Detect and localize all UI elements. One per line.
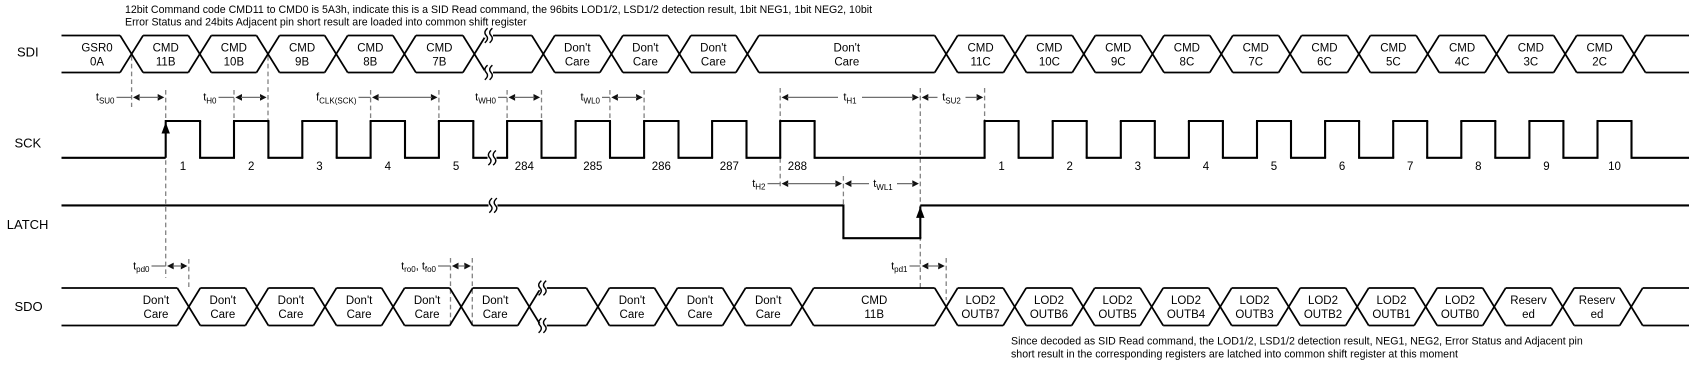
SCK clock pulse 3 (second frame): [1120, 121, 1190, 173]
svg-text:8: 8: [1475, 161, 1481, 173]
svg-text:Care: Care: [415, 309, 440, 321]
SDI bus transition at x=336: [325, 36, 348, 73]
svg-text:286: 286: [652, 161, 671, 173]
SCK clock pulse 288: [779, 121, 815, 173]
svg-text:3: 3: [1135, 161, 1141, 173]
dashed reference line: SDO transition end tfo0: [471, 258, 473, 326]
SDI bus transition at x=1290: [1279, 36, 1302, 73]
svg-text:LOD2: LOD2: [965, 295, 995, 307]
svg-text:7B: 7B: [432, 56, 446, 68]
svg-text:Don't: Don't: [278, 295, 305, 307]
dashed reference line: SDI first data change: [131, 56, 133, 107]
SDO bus segment 13: LOD2 OUTB5: [1095, 288, 1141, 326]
SDI bus transition at x=1221: [1210, 36, 1233, 73]
svg-text:7: 7: [1407, 161, 1413, 173]
SDO bus segment 5: Don't Care: [473, 288, 518, 326]
svg-text:Don't: Don't: [210, 295, 237, 307]
break mark on SDI bottom line at x=486: [484, 65, 493, 80]
SDO bus segment 15: LOD2 OUTB3: [1232, 288, 1278, 326]
svg-text:fCLK(SCK): fCLK(SCK): [316, 92, 357, 106]
timing arrow tWL0: [580, 92, 642, 106]
SDO bus transition at x=1563: [1551, 288, 1574, 326]
svg-text:4C: 4C: [1455, 56, 1470, 68]
SDI bus transition at x=1428: [1416, 36, 1439, 73]
svg-text:Care: Care: [834, 56, 859, 68]
svg-text:CMD: CMD: [1449, 42, 1475, 54]
SDO bus segment 11: LOD2 OUTB7: [958, 288, 1004, 326]
timing arrow fCLK(SCK): [316, 92, 437, 106]
SDI bus segment 19: CMD 3C: [1508, 36, 1554, 73]
svg-text:5: 5: [453, 161, 459, 173]
SDI bus transition at x=946: [935, 36, 958, 73]
SDI bus segment 12: CMD 10C: [1027, 36, 1073, 73]
svg-text:tro0, tfo0: tro0, tfo0: [401, 260, 436, 274]
timing arrow tpd0: [133, 260, 187, 274]
SDI bus transition at x=404: [393, 36, 416, 73]
SCK clock pulse 10 (second frame): [1597, 121, 1689, 173]
svg-text:CMD: CMD: [289, 42, 315, 54]
svg-text:LOD2: LOD2: [1376, 295, 1406, 307]
svg-text:12bit Command code CMD11 to CM: 12bit Command code CMD11 to CMD0 is 5A3h…: [125, 4, 872, 16]
SDO bus segment 4: Don't Care: [405, 288, 450, 326]
SDO bus transition at x=598: [586, 288, 609, 326]
svg-text:6C: 6C: [1317, 56, 1332, 68]
dashed reference line: fCLK left: [370, 90, 372, 122]
timing arrow tro0, tfo0: [401, 260, 471, 274]
SDO bus transition at x=1289: [1277, 288, 1300, 326]
SDI bus transition at x=543: [532, 36, 555, 73]
SDO bus segment 6: open: [541, 288, 587, 326]
SDI bus transition at x=132: [120, 36, 143, 73]
svg-text:LOD2: LOD2: [1445, 295, 1475, 307]
SDO bus segment 20: Reserv ed: [1574, 288, 1620, 326]
svg-text:OUTB2: OUTB2: [1304, 309, 1342, 321]
SCK clock pulse 287: [711, 121, 781, 173]
SDO bus transition at x=734: [723, 288, 746, 326]
LATCH falling edge: [842, 204, 844, 238]
SDI bus segment 2: CMD 10B: [211, 36, 256, 73]
SDO bus transition at x=393: [382, 288, 405, 326]
SDO bus transition at x=1426: [1414, 288, 1437, 326]
svg-text:2C: 2C: [1592, 56, 1607, 68]
svg-text:SDI: SDI: [17, 45, 39, 60]
SCK clock pulse 1 (second frame): [984, 121, 1054, 173]
SDI bus transition at x=679: [668, 36, 691, 73]
SDI bus transition at x=200: [188, 36, 211, 73]
SDI bus segment 4: CMD 8B: [348, 36, 393, 73]
SDI bus segment 17: CMD 5C: [1370, 36, 1416, 73]
svg-text:ed: ed: [1522, 309, 1535, 321]
break mark on LATCH high line at x=490: [489, 198, 498, 213]
SCK clock pulse 284: [506, 121, 576, 173]
SDI bus transition at x=747: [736, 36, 759, 73]
LATCH rising edge with arrow: [916, 206, 924, 238]
SDI bus segment 3: CMD 9B: [280, 36, 325, 73]
svg-text:9: 9: [1543, 161, 1549, 173]
dashed reference line: LATCH falling edge: [842, 176, 844, 204]
svg-text:Care: Care: [688, 309, 713, 321]
svg-text:CMD: CMD: [1311, 42, 1337, 54]
svg-text:tSU0: tSU0: [96, 92, 115, 106]
svg-text:Don't: Don't: [687, 295, 714, 307]
SDO bus transition at x=666: [655, 288, 678, 326]
break mark on SDI top line at x=486: [484, 28, 493, 43]
svg-text:CMD: CMD: [153, 42, 179, 54]
svg-text:Care: Care: [701, 56, 726, 68]
svg-text:CMD: CMD: [221, 42, 247, 54]
break mark on SDO top line at x=540: [538, 281, 547, 296]
SCK clock pulse 7 (second frame): [1392, 121, 1462, 173]
svg-text:OUTB4: OUTB4: [1167, 309, 1206, 321]
svg-text:SDO: SDO: [15, 299, 43, 314]
top annotation text: [125, 4, 872, 29]
SCK clock pulse 4: [370, 121, 440, 173]
svg-text:Care: Care: [565, 56, 590, 68]
SDI bus segment 11: CMD 11C: [958, 36, 1004, 73]
svg-text:9C: 9C: [1111, 56, 1126, 68]
SDO bus transition at x=189: [177, 288, 200, 326]
SDO bus segment 14: LOD2 OUTB4: [1163, 288, 1209, 326]
svg-text:Care: Care: [620, 309, 645, 321]
dashed reference line: SCK second rising edge: [233, 90, 235, 126]
svg-text:OUTB5: OUTB5: [1098, 309, 1136, 321]
svg-text:287: 287: [720, 161, 739, 173]
SDI bus segment 9: Don't Care: [691, 36, 736, 73]
SDI bus segment 6: open: [486, 36, 532, 73]
svg-text:CMD: CMD: [357, 42, 383, 54]
svg-text:285: 285: [583, 161, 602, 173]
svg-text:tWL0: tWL0: [580, 92, 600, 106]
timing arrow tH2: [752, 178, 842, 192]
SDI bus segment 8: Don't Care: [623, 36, 668, 73]
dashed reference line: SDO first change: [188, 259, 190, 288]
svg-text:ed: ed: [1591, 309, 1604, 321]
svg-text:Care: Care: [633, 56, 658, 68]
timing arrow tH1: [782, 92, 919, 106]
svg-text:284: 284: [515, 161, 535, 173]
timing arrow tpd1: [891, 260, 945, 274]
SCK clock pulse 3: [301, 121, 371, 173]
timing arrow tSU0: [96, 92, 164, 106]
svg-text:Care: Care: [756, 309, 781, 321]
svg-text:Reserv: Reserv: [1510, 295, 1547, 307]
SDI bus segment 14: CMD 8C: [1164, 36, 1210, 73]
SDI bus segment 10: Don't Care: [759, 36, 935, 73]
SCK waveform: initial low run: [62, 157, 166, 159]
svg-text:OUTB1: OUTB1: [1372, 309, 1410, 321]
svg-text:4: 4: [385, 161, 392, 173]
SDI bus segment 16: CMD 6C: [1302, 36, 1348, 73]
SDO bus segment 17: LOD2 OUTB1: [1369, 288, 1415, 326]
svg-text:Care: Care: [347, 309, 372, 321]
SDO bus segment 18: LOD2 OUTB0: [1437, 288, 1483, 326]
svg-text:1: 1: [998, 161, 1004, 173]
SDO bus transition at x=257: [245, 288, 268, 326]
svg-text:Care: Care: [210, 309, 235, 321]
svg-text:Care: Care: [144, 309, 169, 321]
SDI bus transition at x=1015: [1004, 36, 1027, 73]
SDO bus transition at x=1152: [1140, 288, 1163, 326]
SDO bus transition at x=1494: [1483, 288, 1506, 326]
svg-text:Don't: Don't: [346, 295, 373, 307]
svg-text:Don't: Don't: [143, 295, 170, 307]
SDI bus segment 21: open: [1646, 36, 1689, 73]
svg-text:Don't: Don't: [619, 295, 646, 307]
svg-text:Reserv: Reserv: [1579, 295, 1616, 307]
svg-text:4: 4: [1203, 161, 1210, 173]
SDI bus transition at x=474: [463, 36, 486, 73]
SDO bus segment 3: Don't Care: [337, 288, 382, 326]
dashed reference line: SDO transition start tro0: [450, 258, 452, 326]
svg-text:2: 2: [1066, 161, 1072, 173]
dashed reference line: fCLK right: [438, 90, 440, 122]
svg-text:3: 3: [316, 161, 322, 173]
SCK clock pulse 1: [162, 121, 236, 173]
svg-text:Don't: Don't: [834, 42, 861, 54]
SCK clock pulse 6 (second frame): [1324, 121, 1394, 173]
svg-text:Don't: Don't: [632, 42, 659, 54]
svg-text:CMD: CMD: [1518, 42, 1544, 54]
dashed reference line: SDO change after latch: [945, 258, 947, 300]
svg-text:CMD: CMD: [861, 295, 887, 307]
LATCH low pulse: [842, 237, 921, 239]
svg-text:Care: Care: [483, 309, 508, 321]
SDO bus transition at x=802: [791, 288, 814, 326]
svg-text:LOD2: LOD2: [1171, 295, 1201, 307]
dashed reference line: tWL0 right: [643, 90, 645, 122]
svg-text:CMD: CMD: [967, 42, 993, 54]
svg-text:Since decoded as SID Read comm: Since decoded as SID Read command, the L…: [1011, 335, 1583, 347]
svg-text:LOD2: LOD2: [1102, 295, 1132, 307]
SDI bus segment 13: CMD 9C: [1095, 36, 1141, 73]
SDO bus segment 21: open: [1643, 288, 1689, 326]
svg-text:GSR0: GSR0: [81, 42, 112, 54]
svg-text:LOD2: LOD2: [1034, 295, 1064, 307]
dashed reference line: SDI data change tH0: [267, 56, 269, 126]
svg-text:LATCH: LATCH: [7, 217, 49, 232]
SDO bus segment 16: LOD2 OUTB2: [1300, 288, 1346, 326]
svg-text:OUTB3: OUTB3: [1235, 309, 1273, 321]
SDI bus transition at x=1084: [1072, 36, 1095, 73]
svg-text:OUTB6: OUTB6: [1030, 309, 1068, 321]
svg-text:Don't: Don't: [755, 295, 782, 307]
svg-text:Don't: Don't: [564, 42, 591, 54]
svg-text:LOD2: LOD2: [1308, 295, 1338, 307]
svg-text:5: 5: [1271, 161, 1277, 173]
svg-text:Don't: Don't: [700, 42, 727, 54]
svg-text:11C: 11C: [970, 56, 990, 68]
svg-text:CMD: CMD: [1586, 42, 1612, 54]
SDI bus segment 20: CMD 2C: [1577, 36, 1623, 73]
svg-text:CMD: CMD: [1243, 42, 1269, 54]
SDO bus segment 0: Don't Care: [62, 288, 178, 326]
svg-text:CMD: CMD: [1380, 42, 1406, 54]
dashed reference line: tWL0 left: [609, 90, 611, 122]
dashed reference line: tWH0 left: [506, 90, 508, 122]
svg-text:10B: 10B: [224, 56, 245, 68]
SDI bus segment 1: CMD 11B: [143, 36, 188, 73]
SDI bus transition at x=1359: [1347, 36, 1370, 73]
svg-text:Error Status and 24bits Adjace: Error Status and 24bits Adjacent pin sho…: [125, 17, 527, 29]
timing arrow tWH0: [475, 92, 540, 106]
SCK clock pulse 286: [643, 121, 713, 173]
svg-text:LOD2: LOD2: [1239, 295, 1269, 307]
svg-text:10C: 10C: [1039, 56, 1060, 68]
SDI bus segment 0: GSR0 0A: [62, 36, 121, 73]
dashed reference line: tWH0 right: [541, 90, 543, 122]
svg-text:short result in the correspond: short result in the corresponding regist…: [1011, 348, 1458, 360]
SCK clock pulse 8 (second frame): [1460, 121, 1530, 173]
SDI bus transition at x=1565: [1554, 36, 1577, 73]
bottom annotation text: [1011, 335, 1583, 360]
svg-text:2: 2: [248, 161, 254, 173]
svg-text:288: 288: [788, 161, 807, 173]
svg-text:tSU2: tSU2: [942, 92, 961, 106]
SCK clock pulse 4 (second frame): [1188, 121, 1258, 173]
SCK low run during latch: [814, 157, 986, 159]
SDI bus segment 7: Don't Care: [555, 36, 600, 73]
break mark on SDO bottom line at x=540: [538, 318, 547, 333]
svg-text:8C: 8C: [1180, 56, 1195, 68]
break mark on SCK low line at x=490: [488, 151, 497, 166]
timing arrow tWL1: [845, 178, 919, 192]
SDO bus segment 9: Don't Care: [746, 288, 791, 326]
svg-text:6: 6: [1339, 161, 1345, 173]
svg-text:tH2: tH2: [752, 178, 766, 192]
SDI bus transition at x=268: [257, 36, 280, 73]
svg-text:tWH0: tWH0: [475, 92, 496, 106]
SDO bus transition at x=946: [935, 288, 958, 326]
SDO bus transition at x=1015: [1003, 288, 1026, 326]
svg-text:tWL1: tWL1: [873, 178, 893, 192]
svg-text:Don't: Don't: [414, 295, 441, 307]
SDO bus segment 1: Don't Care: [200, 288, 245, 326]
SDO bus segment 7: Don't Care: [609, 288, 654, 326]
SDO bus transition at x=1357: [1346, 288, 1369, 326]
SDO bus transition at x=529: [518, 288, 541, 326]
svg-text:tH1: tH1: [843, 92, 857, 106]
SDO bus segment 10: CMD 11B: [814, 288, 935, 326]
SDO bus transition at x=461: [450, 288, 473, 326]
timing arrow tH0: [203, 92, 266, 106]
SDI bus transition at x=611: [600, 36, 623, 73]
SDI bus transition at x=1634: [1623, 36, 1646, 73]
SDO bus segment 2: Don't Care: [268, 288, 313, 326]
SCK clock pulse 5: [438, 121, 508, 173]
svg-text:11B: 11B: [156, 56, 176, 68]
SCK clock pulse 2: [233, 121, 303, 173]
svg-text:OUTB7: OUTB7: [961, 309, 999, 321]
svg-text:CMD: CMD: [1105, 42, 1131, 54]
svg-text:OUTB0: OUTB0: [1441, 309, 1479, 321]
SDI bus segment 18: CMD 4C: [1439, 36, 1485, 73]
SDO bus segment 19: Reserv ed: [1506, 288, 1552, 326]
SDI bus transition at x=1152: [1141, 36, 1164, 73]
dashed reference line: second frame SCK rising edge: [984, 88, 986, 122]
svg-text:SCK: SCK: [15, 135, 42, 150]
dashed reference line: SCK pulse 288 rising edge: [779, 88, 781, 188]
SDO bus segment 8: Don't Care: [678, 288, 723, 326]
SCK clock pulse 2 (second frame): [1052, 121, 1122, 173]
svg-text:9B: 9B: [295, 56, 309, 68]
svg-text:0A: 0A: [90, 56, 104, 68]
svg-text:Don't: Don't: [482, 295, 509, 307]
timing arrow tSU2: [922, 92, 984, 106]
svg-text:tpd0: tpd0: [133, 260, 150, 274]
svg-text:10: 10: [1608, 161, 1621, 173]
svg-text:1: 1: [180, 161, 186, 173]
svg-text:11B: 11B: [864, 309, 884, 321]
dashed reference line: SCK first rising edge: [165, 90, 167, 278]
SDI bus segment 5: CMD 7B: [416, 36, 463, 73]
SDO bus transition at x=1220: [1209, 288, 1232, 326]
dashed reference line: LATCH rising edge: [919, 88, 921, 288]
svg-text:tpd1: tpd1: [891, 260, 908, 274]
svg-text:8B: 8B: [363, 56, 377, 68]
svg-text:5C: 5C: [1386, 56, 1401, 68]
svg-text:CMD: CMD: [1174, 42, 1200, 54]
SDO bus transition at x=325: [314, 288, 337, 326]
SCK clock pulse 285: [575, 121, 646, 173]
svg-text:CMD: CMD: [1036, 42, 1062, 54]
SCK clock pulse 9 (second frame): [1528, 121, 1598, 173]
svg-text:3C: 3C: [1523, 56, 1538, 68]
svg-text:tH0: tH0: [203, 92, 217, 106]
SDI bus transition at x=1496: [1485, 36, 1508, 73]
svg-text:Care: Care: [278, 309, 303, 321]
SCK clock pulse 5 (second frame): [1256, 121, 1326, 173]
SDO bus segment 12: LOD2 OUTB6: [1026, 288, 1072, 326]
LATCH waveform high run after latch: [920, 204, 1689, 206]
SDO bus transition at x=1083: [1072, 288, 1095, 326]
SDO bus transition at x=1631: [1620, 288, 1643, 326]
svg-text:CMD: CMD: [426, 42, 452, 54]
svg-text:7C: 7C: [1248, 56, 1263, 68]
SDI bus segment 15: CMD 7C: [1233, 36, 1279, 73]
LATCH waveform high run: [62, 204, 844, 206]
